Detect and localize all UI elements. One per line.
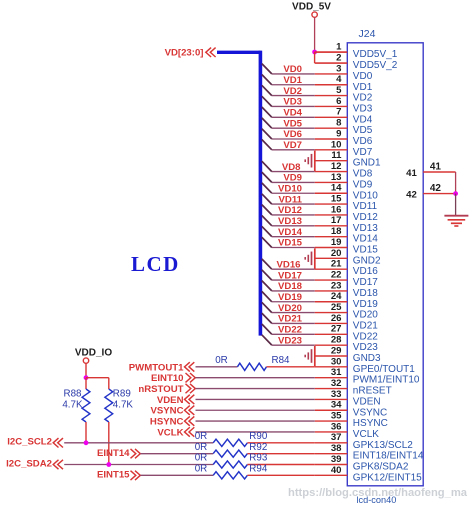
wire R92 to pin 38 — [247, 453, 314, 455]
pin 39 (GPK8/SDA2) — [315, 454, 409, 473]
wire VD18 (bus entry to pin 23) — [262, 281, 315, 293]
svg-text:15: 15 — [331, 194, 342, 205]
svg-text:PWM1/EINT10: PWM1/EINT10 — [353, 375, 420, 386]
svg-text:0R: 0R — [195, 453, 208, 464]
svg-text:37: 37 — [331, 432, 342, 443]
svg-text:5: 5 — [336, 85, 342, 96]
svg-text:J24: J24 — [359, 28, 376, 40]
svg-text:VDD_5V: VDD_5V — [292, 1, 331, 12]
wire pin41 down to pin42 — [455, 172, 457, 194]
svg-text:27: 27 — [331, 324, 342, 335]
pin 23 (VD18) — [315, 280, 378, 299]
svg-text:EINT18/EINT14: EINT18/EINT14 — [353, 451, 424, 462]
pin 24 (VD19) — [315, 291, 378, 310]
port nRSTOUT — [138, 384, 195, 395]
svg-text:14: 14 — [331, 183, 342, 194]
svg-text:VD5: VD5 — [353, 125, 373, 136]
svg-text:26: 26 — [331, 313, 342, 324]
pin 41 wire — [406, 161, 455, 179]
svg-text:VD20: VD20 — [278, 303, 302, 314]
junction R88/SCL2 — [84, 440, 89, 445]
pin 13 (VD9) — [315, 172, 373, 191]
wire VD5 (bus entry to pin 8) — [262, 118, 315, 129]
wire VD7 (bus entry to pin 10) — [262, 140, 315, 152]
pin 1 (VDD5V_1) — [315, 42, 398, 61]
svg-text:VD19: VD19 — [353, 299, 378, 310]
svg-text:HSYNC: HSYNC — [150, 417, 184, 428]
svg-text:R93: R93 — [249, 453, 268, 464]
svg-text:VD2: VD2 — [283, 86, 302, 97]
wire I2C_SCL2 — [64, 442, 213, 444]
port VD[23:0] — [165, 47, 216, 58]
pin 9 (VD6) — [315, 128, 373, 147]
svg-text:EINT15: EINT15 — [97, 470, 130, 481]
pin 22 (VD17) — [315, 269, 378, 288]
svg-text:4.7K: 4.7K — [113, 400, 134, 411]
svg-text:VD22: VD22 — [353, 331, 378, 342]
svg-text:29: 29 — [331, 345, 342, 356]
wire VD6 (bus entry to pin 9) — [262, 129, 315, 141]
wire VD0 (bus entry to pin 3) — [262, 64, 315, 76]
wire VCLK to pin 36 — [196, 431, 315, 433]
svg-text:16: 16 — [331, 204, 342, 215]
svg-text:19: 19 — [331, 237, 342, 248]
svg-text:I2C_SDA2: I2C_SDA2 — [6, 458, 52, 469]
svg-text:VD14: VD14 — [353, 234, 378, 245]
svg-text:VD5: VD5 — [283, 118, 302, 129]
svg-text:4: 4 — [336, 74, 342, 85]
svg-text:GPK13/SCL2: GPK13/SCL2 — [353, 440, 413, 451]
svg-text:VD2: VD2 — [353, 93, 373, 104]
svg-text:VD12: VD12 — [353, 212, 378, 223]
port VSYNC — [150, 406, 194, 417]
pin 20 (GND2) — [315, 248, 381, 267]
svg-text:6: 6 — [336, 96, 341, 107]
wire VD22 (bus entry to pin 27) — [262, 324, 315, 336]
svg-text:VD7: VD7 — [353, 147, 373, 158]
svg-text:GND1: GND1 — [353, 158, 381, 169]
svg-text:VD13: VD13 — [353, 223, 378, 234]
port VCLK — [157, 427, 194, 438]
svg-text:42: 42 — [406, 189, 417, 200]
wire VD1 (bus entry to pin 4) — [262, 75, 315, 86]
wire to ground — [455, 194, 457, 216]
svg-text:36: 36 — [331, 421, 342, 432]
svg-text:VCLK: VCLK — [353, 429, 379, 440]
port HSYNC — [150, 416, 194, 427]
svg-text:1: 1 — [336, 42, 342, 53]
svg-text:33: 33 — [331, 389, 342, 400]
power symbol VDD_IO — [75, 347, 112, 377]
svg-text:7: 7 — [336, 107, 341, 118]
wire VD2 (bus entry to pin 5) — [262, 85, 315, 97]
svg-text:VD18: VD18 — [278, 281, 303, 292]
pin 19 (VD15) — [315, 237, 378, 256]
svg-text:VSYNC: VSYNC — [150, 406, 183, 417]
wire VD15 (bus entry to pin 19) — [262, 237, 315, 249]
svg-text:VD19: VD19 — [278, 292, 302, 303]
svg-text:42: 42 — [430, 183, 442, 194]
svg-text:EINT14: EINT14 — [97, 448, 130, 459]
svg-text:GPE0/TOUT1: GPE0/TOUT1 — [353, 364, 415, 375]
svg-text:GND3: GND3 — [353, 353, 381, 364]
wire VD17 (bus entry to pin 22) — [262, 270, 315, 281]
svg-text:GPK12/EINT15: GPK12/EINT15 — [353, 472, 422, 483]
svg-text:R88: R88 — [64, 389, 83, 400]
svg-text:28: 28 — [331, 335, 342, 346]
wire R93 to pin 39 — [247, 464, 314, 466]
svg-text:11: 11 — [331, 150, 342, 161]
svg-text:GPK8/SDA2: GPK8/SDA2 — [353, 462, 409, 473]
pin 28 (VD23) — [315, 335, 378, 354]
pin 12 (VD8) — [315, 161, 373, 180]
junction R89/SDA2 — [106, 462, 111, 467]
port EINT10 — [151, 373, 195, 384]
svg-text:VD10: VD10 — [278, 183, 302, 194]
svg-text:VD14: VD14 — [278, 227, 303, 238]
svg-text:VD23: VD23 — [353, 342, 378, 353]
svg-text:31: 31 — [331, 367, 342, 378]
svg-text:35: 35 — [331, 411, 342, 422]
pin 3 (VD0) — [315, 63, 373, 82]
pin 38 (EINT18/EINT14) — [315, 443, 424, 462]
svg-text:9: 9 — [336, 128, 341, 139]
svg-text:30: 30 — [331, 356, 342, 367]
pin 7 (VD4) — [315, 107, 373, 126]
connector J24 box — [347, 43, 423, 486]
pin 11 (GND1) — [315, 150, 381, 169]
svg-text:VD8: VD8 — [282, 162, 301, 173]
wire VD13 (bus entry to pin 17) — [262, 216, 315, 228]
svg-text:0R: 0R — [195, 431, 208, 442]
svg-text:VD16: VD16 — [353, 266, 378, 277]
pin 2 (VDD5V_2) — [315, 52, 398, 71]
wire VD20 (bus entry to pin 25) — [262, 302, 315, 314]
svg-text:23: 23 — [331, 280, 342, 291]
pin 6 (VD3) — [315, 96, 373, 115]
wire VSYNC to pin 34 — [196, 409, 315, 411]
svg-text:VD8: VD8 — [353, 169, 373, 180]
svg-text:VCLK: VCLK — [157, 427, 183, 438]
svg-text:0R: 0R — [195, 464, 208, 475]
svg-text:I2C_SCL2: I2C_SCL2 — [7, 437, 52, 448]
svg-text:VD12: VD12 — [278, 205, 302, 216]
svg-text:VDEN: VDEN — [157, 395, 184, 406]
svg-text:38: 38 — [331, 443, 342, 454]
svg-text:VD15: VD15 — [278, 238, 303, 249]
pin 29 (GND3) — [315, 345, 381, 364]
svg-text:VD3: VD3 — [353, 103, 373, 114]
svg-text:VDD_IO: VDD_IO — [75, 347, 112, 358]
wire R89 bottom to SDA2 net — [108, 422, 110, 465]
svg-text:VD3: VD3 — [283, 97, 302, 108]
pin 16 (VD12) — [315, 204, 378, 223]
wire EINT10 to pin 31 — [196, 377, 315, 379]
svg-text:0R: 0R — [195, 442, 208, 453]
svg-text:R94: R94 — [249, 464, 268, 475]
svg-text:VD10: VD10 — [353, 190, 378, 201]
wire I2C_SDA2 — [64, 464, 213, 466]
wire VD4 (bus entry to pin 7) — [262, 107, 315, 119]
svg-text:39: 39 — [331, 454, 342, 465]
svg-text:VD0: VD0 — [283, 64, 302, 75]
svg-text:VD13: VD13 — [278, 216, 302, 227]
ground GND3 (pin 29) — [305, 346, 315, 366]
wire VD23 (bus entry to pin 28) — [262, 335, 315, 347]
svg-text:3: 3 — [336, 63, 341, 74]
wire HSYNC to pin 35 — [196, 420, 315, 422]
resistor R93 (0R) — [195, 453, 268, 468]
svg-text:40: 40 — [331, 465, 342, 476]
wire R84 to pin 30 — [267, 366, 315, 368]
svg-text:VD17: VD17 — [353, 277, 378, 288]
svg-text:VD4: VD4 — [283, 108, 302, 119]
wire VD9 (bus entry to pin 13) — [262, 172, 315, 184]
pin 21 (VD16) — [315, 259, 378, 278]
pin 32 (nRESET) — [315, 378, 392, 397]
pin 10 (VD7) — [315, 139, 373, 158]
svg-text:VSYNC: VSYNC — [353, 407, 387, 418]
wire R94 to pin 40 — [247, 474, 314, 476]
svg-text:VD21: VD21 — [353, 320, 378, 331]
pin 8 (VD5) — [315, 118, 373, 137]
svg-text:41: 41 — [406, 168, 417, 179]
junction VDD_IO node — [84, 375, 89, 380]
wire R88 bottom to SCL2 net — [85, 422, 87, 443]
svg-text:VD21: VD21 — [278, 314, 303, 325]
wire VD12 (bus entry to pin 16) — [262, 205, 315, 217]
svg-text:VD1: VD1 — [353, 82, 373, 93]
pin 17 (VD13) — [315, 215, 378, 234]
port VDEN — [157, 395, 194, 406]
svg-text:GND2: GND2 — [353, 255, 381, 266]
svg-text:https://blog.csdn.net/haofeng_: https://blog.csdn.net/haofeng_ma — [288, 487, 468, 499]
junction 41/42 node — [453, 191, 458, 196]
pin 37 (GPK13/SCL2) — [315, 432, 413, 451]
wire VDEN to pin 33 — [196, 398, 315, 400]
label LCD — [131, 252, 180, 276]
power symbol VDD_5V — [292, 1, 331, 52]
svg-text:R84: R84 — [272, 355, 291, 366]
svg-text:VD11: VD11 — [279, 194, 303, 205]
label J24 — [359, 28, 376, 40]
port EINT14 — [97, 448, 140, 459]
svg-text:10: 10 — [331, 139, 342, 150]
resistor R92 (0R) — [195, 442, 268, 457]
svg-text:VDD5V_2: VDD5V_2 — [353, 60, 398, 71]
svg-text:VD22: VD22 — [278, 325, 302, 336]
pin 15 (VD11) — [315, 194, 378, 213]
svg-text:VD1: VD1 — [283, 75, 302, 86]
svg-text:LCD: LCD — [131, 252, 180, 276]
wire VD21 (bus entry to pin 26) — [262, 313, 315, 325]
wire VD8 (bus entry to pin 12) — [262, 161, 315, 173]
junction VDD_5V node — [312, 50, 317, 55]
svg-text:8: 8 — [336, 118, 342, 129]
svg-text:VD6: VD6 — [353, 136, 373, 147]
svg-text:VDD5V_1: VDD5V_1 — [353, 49, 398, 60]
svg-text:VD15: VD15 — [353, 245, 378, 256]
wire VD19 (bus entry to pin 24) — [262, 291, 315, 303]
svg-text:13: 13 — [331, 172, 342, 183]
ground GND2 (pin 20) — [305, 248, 315, 268]
svg-text:VD20: VD20 — [353, 310, 378, 321]
resistor R90 (0R) — [195, 431, 268, 446]
wire VD3 (bus entry to pin 6) — [262, 96, 315, 107]
wire nRSTOUT to pin 32 — [196, 388, 315, 390]
svg-text:VD[23:0]: VD[23:0] — [165, 47, 204, 58]
svg-text:nRSTOUT: nRSTOUT — [138, 384, 183, 395]
ground GND1 (pin 11) — [305, 151, 315, 171]
pin 30 (GPE0/TOUT1) — [315, 356, 415, 375]
port I2C_SDA2 — [6, 458, 63, 469]
pin 18 (VD14) — [315, 226, 378, 245]
svg-text:24: 24 — [331, 291, 342, 302]
svg-text:22: 22 — [331, 269, 342, 280]
label lcd-con40 — [357, 495, 397, 505]
svg-text:VD7: VD7 — [283, 140, 302, 151]
svg-text:VDEN: VDEN — [353, 396, 381, 407]
svg-text:25: 25 — [331, 302, 342, 313]
ground symbol (right) — [444, 216, 468, 226]
watermark — [288, 487, 468, 499]
wire VDD_5V to pin 2 — [315, 52, 348, 63]
wire R90 to pin 37 — [247, 442, 314, 444]
svg-text:32: 32 — [331, 378, 342, 389]
port EINT15 — [97, 470, 140, 481]
svg-text:2: 2 — [336, 52, 341, 63]
svg-text:HSYNC: HSYNC — [353, 418, 388, 429]
svg-text:R92: R92 — [249, 442, 267, 453]
pin 31 (PWM1/EINT10) — [315, 367, 420, 386]
svg-text:VD9: VD9 — [353, 179, 373, 190]
pin 33 (VDEN) — [315, 389, 381, 408]
port I2C_SCL2 — [7, 437, 63, 448]
svg-text:VD6: VD6 — [283, 129, 302, 140]
svg-text:VD9: VD9 — [283, 173, 302, 184]
pin 5 (VD2) — [315, 85, 373, 104]
svg-text:VD0: VD0 — [353, 71, 373, 82]
wire VDD_5V to pin 1 — [315, 51, 348, 53]
svg-text:VD16: VD16 — [277, 259, 301, 270]
wire EINT15 — [141, 474, 214, 476]
svg-text:VD11: VD11 — [353, 201, 378, 212]
wire VD14 (bus entry to pin 18) — [262, 226, 315, 238]
wire VDD_IO to R88 top — [85, 378, 87, 389]
wire PWMTOUT1 to R84 — [196, 366, 238, 368]
pin 42 wire — [406, 183, 455, 201]
svg-text:18: 18 — [331, 226, 342, 237]
svg-text:R89: R89 — [113, 389, 131, 400]
svg-text:34: 34 — [331, 400, 342, 411]
wire VD16 (bus entry to pin 21) — [262, 259, 315, 271]
svg-text:VD17: VD17 — [278, 270, 302, 281]
pin 14 (VD10) — [315, 183, 378, 202]
wire VD10 (bus entry to pin 14) — [262, 183, 315, 195]
pin 34 (VSYNC) — [315, 400, 387, 419]
pin 25 (VD20) — [315, 302, 378, 321]
svg-text:41: 41 — [430, 161, 442, 172]
wire EINT14 — [141, 453, 214, 455]
svg-text:12: 12 — [331, 161, 342, 172]
svg-text:R90: R90 — [249, 431, 268, 442]
resistor R94 (0R) — [195, 464, 268, 479]
pin 4 (VD1) — [315, 74, 373, 93]
wire VD11 (bus entry to pin 15) — [262, 194, 315, 206]
wire VDD_IO to R89 top — [86, 378, 109, 389]
pin 40 (GPK12/EINT15) — [315, 465, 422, 484]
svg-text:21: 21 — [331, 259, 342, 270]
svg-text:17: 17 — [331, 215, 342, 226]
bus VD[23:0] — [217, 51, 260, 336]
pin 27 (VD22) — [315, 324, 378, 343]
svg-text:nRESET: nRESET — [353, 386, 392, 397]
resistor R88 4.7K — [62, 389, 90, 422]
svg-text:4.7K: 4.7K — [62, 400, 83, 411]
pin 26 (VD21) — [315, 313, 378, 332]
port PWMTOUT1 — [129, 362, 195, 373]
svg-text:EINT10: EINT10 — [151, 373, 184, 384]
svg-text:VD4: VD4 — [353, 114, 373, 125]
resistor R89 4.7K — [105, 389, 134, 422]
resistor R84 (0R) — [215, 355, 290, 371]
svg-text:VD18: VD18 — [353, 288, 378, 299]
svg-text:PWMTOUT1: PWMTOUT1 — [129, 362, 184, 373]
svg-text:VD23: VD23 — [278, 335, 302, 346]
pin 36 (VCLK) — [315, 421, 379, 440]
svg-text:0R: 0R — [215, 355, 228, 366]
svg-text:20: 20 — [331, 248, 342, 259]
pin 35 (HSYNC) — [315, 411, 388, 430]
